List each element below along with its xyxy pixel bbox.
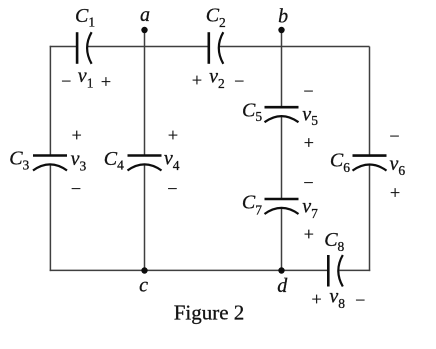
capacitor C1 curved plate [87, 32, 92, 64]
svg-text:−: − [303, 81, 313, 101]
svg-text:b: b [278, 6, 288, 28]
svg-text:v5: v5 [302, 103, 318, 128]
capacitor C6 curved plate [353, 165, 387, 171]
svg-text:+: + [390, 183, 400, 203]
wire branch b upper to C5 [281, 30, 283, 107]
wire left edge lower [49, 164, 51, 271]
svg-text:C7: C7 [242, 192, 262, 218]
svg-text:Figure 2: Figure 2 [174, 301, 245, 325]
wire bottom from left corner to C8 [50, 269, 329, 271]
svg-text:−: − [167, 179, 177, 199]
capacitor C3 plate [33, 154, 67, 157]
svg-text:C5: C5 [242, 99, 262, 124]
svg-text:C8: C8 [324, 229, 344, 254]
capacitor C8 plate [327, 255, 330, 287]
svg-text:v8: v8 [329, 285, 345, 311]
wire C2 to top-right corner through node b [219, 46, 369, 48]
svg-text:v4: v4 [164, 147, 180, 173]
node a dot [141, 27, 147, 33]
svg-text:+: + [312, 289, 322, 309]
capacitor C4 plate [128, 154, 162, 157]
capacitor C8 curved plate [338, 255, 343, 287]
wire C8 to bottom-right corner [339, 269, 370, 271]
node d dot [278, 267, 284, 273]
svg-text:−: − [71, 179, 81, 199]
capacitor C2 curved plate [219, 32, 224, 64]
wire right edge lower [369, 165, 371, 272]
capacitor C4 curved plate [128, 164, 162, 170]
wire branch a-c upper [144, 30, 146, 156]
svg-text:−: − [303, 172, 313, 192]
svg-text:C6: C6 [330, 149, 350, 175]
svg-text:v2: v2 [209, 65, 225, 91]
wire C1 to C2 through node a [88, 46, 209, 48]
svg-text:C2: C2 [206, 5, 226, 31]
wire top-left segment [50, 46, 77, 48]
svg-text:+: + [101, 72, 111, 92]
svg-text:−: − [389, 126, 399, 146]
svg-text:+: + [192, 70, 202, 90]
wire branch C5 to C7 [281, 116, 283, 199]
svg-text:C4: C4 [104, 148, 124, 173]
wire left edge upper [49, 46, 51, 156]
svg-text:−: − [61, 71, 71, 91]
node b dot [278, 27, 284, 33]
svg-text:d: d [277, 275, 288, 297]
capacitor C6 plate [353, 154, 387, 157]
wire branch C7 to d [281, 208, 283, 271]
svg-text:v7: v7 [302, 195, 318, 221]
capacitor C5 plate [265, 106, 299, 109]
svg-text:−: − [355, 290, 365, 310]
capacitor C7 plate [265, 198, 299, 201]
svg-text:+: + [168, 125, 178, 145]
svg-text:c: c [139, 274, 148, 296]
capacitor C2 plate [208, 32, 211, 64]
svg-text:a: a [140, 4, 150, 26]
svg-text:C1: C1 [75, 5, 95, 30]
svg-text:+: + [304, 224, 314, 244]
capacitor C3 curved plate [33, 164, 67, 170]
svg-text:C3: C3 [9, 147, 29, 172]
svg-text:v3: v3 [71, 148, 87, 174]
capacitor C1 plate [76, 32, 79, 64]
svg-text:+: + [72, 125, 82, 145]
wire right edge upper [369, 47, 371, 156]
svg-text:v6: v6 [390, 153, 406, 178]
capacitor C5 curved plate [265, 116, 299, 122]
svg-text:−: − [234, 71, 244, 91]
wire branch a-c lower [144, 164, 146, 271]
svg-text:v1: v1 [78, 65, 94, 90]
capacitor C7 curved plate [265, 208, 299, 214]
svg-text:+: + [304, 133, 314, 153]
node c dot [141, 267, 147, 273]
